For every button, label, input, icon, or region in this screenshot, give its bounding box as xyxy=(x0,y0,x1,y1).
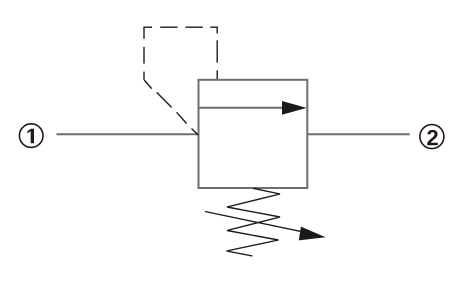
spring adjust arrow shaft xyxy=(205,212,302,232)
wire box to port 2 xyxy=(307,133,409,135)
port circle 1 xyxy=(19,124,43,148)
flow arrow shaft inside box xyxy=(200,107,285,109)
port label 1 xyxy=(27,129,34,144)
spring adjust arrowhead xyxy=(299,227,326,241)
port circle 2 xyxy=(420,125,444,149)
spring zigzag xyxy=(227,188,281,256)
port label 2 xyxy=(427,130,438,145)
flow arrowhead xyxy=(282,101,307,115)
pilot dashed line: left vertical xyxy=(143,27,145,80)
valve body box xyxy=(199,80,308,188)
wire port 1 to box xyxy=(57,133,199,135)
pilot dashed line: right vertical to box top xyxy=(216,27,218,80)
pilot dashed line: top horizontal xyxy=(144,26,218,28)
pilot dashed line: diagonal to port junction xyxy=(144,80,198,135)
